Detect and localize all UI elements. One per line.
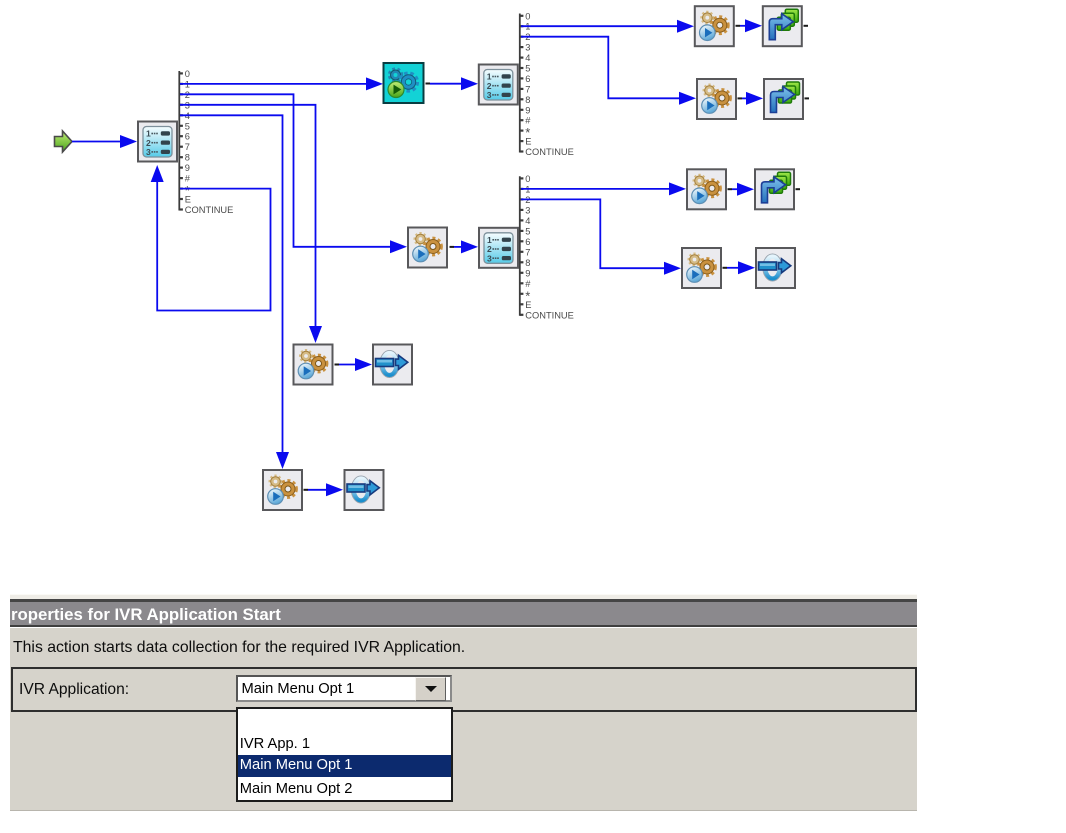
svg-text:3: 3 xyxy=(525,43,530,53)
svg-text:6: 6 xyxy=(185,132,190,142)
svg-text:E: E xyxy=(525,300,531,310)
svg-text:3: 3 xyxy=(525,205,530,215)
svg-text:8: 8 xyxy=(185,153,190,163)
svg-text:#: # xyxy=(185,174,191,184)
svg-text:E: E xyxy=(185,195,191,205)
svg-text:CONTINUE: CONTINUE xyxy=(525,310,574,320)
svg-text:4: 4 xyxy=(525,216,530,226)
svg-text:7: 7 xyxy=(525,84,530,94)
svg-text:9: 9 xyxy=(525,268,530,278)
svg-text:5: 5 xyxy=(185,121,190,131)
svg-text:#: # xyxy=(525,279,531,289)
svg-text:6: 6 xyxy=(525,237,530,247)
svg-text:7: 7 xyxy=(185,142,190,152)
svg-text:0: 0 xyxy=(525,11,530,21)
svg-text:CONTINUE: CONTINUE xyxy=(185,205,234,215)
svg-text:9: 9 xyxy=(185,163,190,173)
svg-text:8: 8 xyxy=(525,95,530,105)
svg-text:5: 5 xyxy=(525,64,530,74)
svg-text:7: 7 xyxy=(525,247,530,257)
svg-text:8: 8 xyxy=(525,258,530,268)
svg-text:0: 0 xyxy=(525,174,530,184)
svg-text:5: 5 xyxy=(525,226,530,236)
svg-text:CONTINUE: CONTINUE xyxy=(525,147,574,157)
svg-text:E: E xyxy=(525,137,531,147)
svg-text:6: 6 xyxy=(525,74,530,84)
svg-text:9: 9 xyxy=(525,105,530,115)
svg-text:0: 0 xyxy=(185,69,190,79)
svg-text:4: 4 xyxy=(525,53,530,63)
